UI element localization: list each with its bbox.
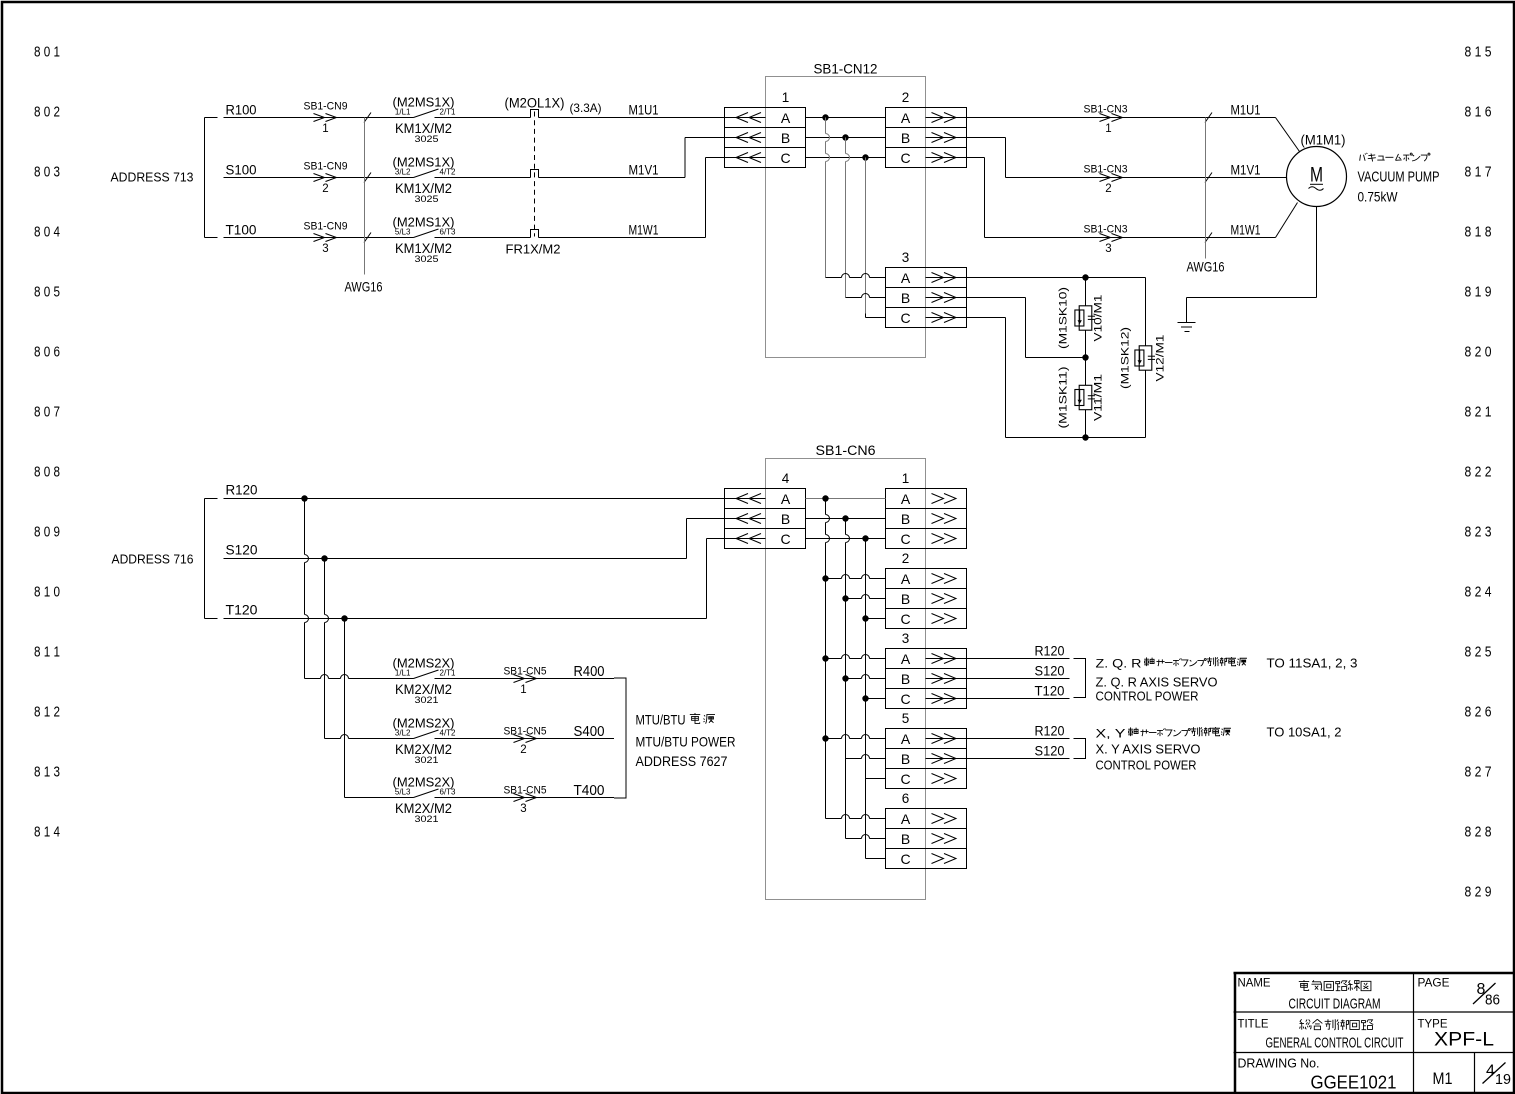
svg-text:VACUUM PUMP: VACUUM PUMP (1358, 170, 1440, 186)
svg-text:AWG16: AWG16 (1187, 259, 1225, 275)
svg-text:2/T1: 2/T1 (440, 669, 457, 678)
svg-text:R100: R100 (226, 102, 257, 118)
svg-text:B: B (901, 591, 910, 607)
svg-text:8 2 0: 8 2 0 (1465, 345, 1492, 361)
svg-text:FR1X/M2: FR1X/M2 (506, 242, 561, 257)
svg-text:3: 3 (902, 250, 910, 265)
svg-text:8 2 3: 8 2 3 (1465, 525, 1492, 541)
svg-text:C: C (900, 531, 910, 547)
svg-text:8 1 6: 8 1 6 (1465, 105, 1492, 121)
svg-text:S120: S120 (1035, 664, 1065, 679)
svg-text:X. Y AXIS SERVO: X. Y AXIS SERVO (1096, 743, 1201, 757)
svg-text:8 2 9: 8 2 9 (1465, 885, 1492, 901)
svg-text:6: 6 (902, 791, 910, 806)
svg-text:C: C (900, 611, 910, 627)
svg-text:8 0 7: 8 0 7 (34, 405, 60, 421)
svg-text:R120: R120 (1035, 644, 1065, 659)
svg-text:ADDRESS 713: ADDRESS 713 (111, 170, 194, 185)
svg-text:(3.3A): (3.3A) (570, 101, 602, 115)
svg-text:8 1 9: 8 1 9 (1465, 285, 1492, 301)
svg-text:8 2 2: 8 2 2 (1465, 465, 1492, 481)
svg-text:M1U1: M1U1 (1231, 103, 1261, 118)
svg-text:R120: R120 (1035, 724, 1065, 739)
svg-text:SB1-CN9: SB1-CN9 (304, 221, 348, 233)
svg-text:TO 11SA1, 2, 3: TO 11SA1, 2, 3 (1267, 657, 1358, 671)
svg-text:V12/M1: V12/M1 (1155, 335, 1167, 382)
svg-text:8 2 1: 8 2 1 (1465, 405, 1492, 421)
svg-text:3/L2: 3/L2 (395, 168, 411, 177)
svg-text:M1U1: M1U1 (629, 103, 659, 118)
svg-text:A: A (901, 651, 911, 667)
svg-text:C: C (900, 851, 910, 867)
svg-text:5/L3: 5/L3 (395, 788, 411, 797)
svg-text:B: B (901, 130, 910, 146)
svg-text:SB1-CN6: SB1-CN6 (816, 443, 876, 458)
svg-text:CONTROL POWER: CONTROL POWER (1096, 759, 1197, 773)
svg-text:A: A (901, 110, 911, 126)
svg-text:SB1-CN3: SB1-CN3 (1084, 104, 1128, 116)
svg-text:3: 3 (322, 243, 328, 255)
svg-text:86: 86 (1485, 993, 1500, 1009)
svg-text:5/L3: 5/L3 (395, 228, 411, 237)
svg-text:8 1 0: 8 1 0 (34, 585, 60, 601)
svg-text:A: A (781, 110, 791, 126)
svg-text:T120: T120 (1035, 684, 1065, 699)
svg-text:8 0 3: 8 0 3 (34, 165, 60, 181)
svg-text:DRAWING No.: DRAWING No. (1238, 1057, 1320, 1071)
svg-text:5: 5 (902, 711, 910, 726)
svg-text:8 0 4: 8 0 4 (34, 225, 60, 241)
svg-text:MTU/BTU POWER: MTU/BTU POWER (636, 734, 736, 750)
svg-text:C: C (780, 150, 790, 166)
svg-text:CIRCUIT DIAGRAM: CIRCUIT DIAGRAM (1289, 997, 1381, 1013)
svg-text:8 1 7: 8 1 7 (1465, 165, 1492, 181)
svg-text:GENERAL CONTROL CIRCUIT: GENERAL CONTROL CIRCUIT (1266, 1036, 1404, 1052)
svg-text:3025: 3025 (415, 194, 439, 205)
svg-text:SB1-CN9: SB1-CN9 (304, 161, 348, 173)
svg-text:8 0 2: 8 0 2 (34, 105, 60, 121)
svg-text:1: 1 (520, 684, 526, 696)
svg-text:T120: T120 (226, 602, 258, 618)
svg-text:4: 4 (782, 471, 790, 486)
svg-text:1: 1 (902, 471, 910, 486)
svg-text:2: 2 (520, 744, 526, 756)
svg-text:TYPE: TYPE (1418, 1017, 1448, 1031)
svg-text:8 1 1: 8 1 1 (34, 645, 60, 661)
svg-text:6/T3: 6/T3 (440, 228, 457, 237)
svg-text:(M1SK12): (M1SK12) (1120, 327, 1132, 389)
svg-text:8 2 5: 8 2 5 (1465, 645, 1492, 661)
svg-text:M1: M1 (1433, 1069, 1453, 1088)
svg-text:1: 1 (322, 123, 328, 135)
svg-text:3021: 3021 (415, 814, 439, 825)
svg-text:(M1M1): (M1M1) (1301, 133, 1346, 148)
svg-text:S120: S120 (226, 542, 258, 558)
svg-text:SB1-CN5: SB1-CN5 (504, 726, 547, 738)
svg-text:2: 2 (902, 90, 910, 105)
svg-text:C: C (900, 150, 910, 166)
svg-text:B: B (901, 511, 910, 527)
svg-text:A: A (781, 491, 791, 507)
svg-text:B: B (781, 130, 790, 146)
svg-text:ADDRESS 716: ADDRESS 716 (112, 552, 194, 567)
svg-text:8 1 8: 8 1 8 (1465, 225, 1492, 241)
svg-text:X, Y: X, Y (1096, 727, 1126, 741)
svg-text:M1V1: M1V1 (1231, 163, 1261, 178)
svg-text:A: A (901, 270, 911, 286)
svg-text:3021: 3021 (415, 695, 439, 706)
svg-text:3: 3 (902, 631, 910, 646)
svg-text:A: A (901, 811, 911, 827)
svg-text:S400: S400 (574, 724, 605, 740)
svg-text:A: A (901, 571, 911, 587)
svg-text:SB1-CN3: SB1-CN3 (1084, 164, 1128, 176)
svg-text:B: B (901, 751, 910, 767)
svg-text:1: 1 (782, 90, 790, 105)
svg-text:R120: R120 (226, 482, 258, 498)
svg-text:0.75kW: 0.75kW (1358, 190, 1398, 205)
svg-text:2/T1: 2/T1 (440, 108, 457, 117)
svg-text:(M1SK10): (M1SK10) (1058, 287, 1070, 349)
svg-text:(M2OL1X): (M2OL1X) (505, 96, 565, 111)
svg-text:R400: R400 (574, 664, 605, 680)
svg-text:1: 1 (1105, 123, 1111, 135)
svg-text:A: A (901, 491, 911, 507)
svg-text:SB1-CN12: SB1-CN12 (814, 61, 878, 77)
svg-text:8 0 6: 8 0 6 (34, 345, 60, 361)
svg-text:8 2 4: 8 2 4 (1465, 585, 1492, 601)
svg-text:C: C (900, 310, 910, 326)
svg-text:1/L1: 1/L1 (395, 669, 411, 678)
svg-text:Z. Q. R AXIS SERVO: Z. Q. R AXIS SERVO (1096, 676, 1218, 690)
svg-text:C: C (900, 691, 910, 707)
svg-text:A: A (901, 731, 911, 747)
svg-text:M1V1: M1V1 (629, 163, 659, 178)
svg-text:ADDRESS 7627: ADDRESS 7627 (636, 753, 728, 769)
svg-text:8 2 6: 8 2 6 (1465, 705, 1492, 721)
svg-text:TITLE: TITLE (1238, 1017, 1269, 1031)
svg-text:NAME: NAME (1238, 976, 1271, 990)
svg-text:XPF-L: XPF-L (1434, 1030, 1494, 1051)
svg-text:1/L1: 1/L1 (395, 108, 411, 117)
svg-text:V11/M1: V11/M1 (1093, 374, 1105, 421)
svg-text:C: C (900, 771, 910, 787)
svg-text:3: 3 (1105, 243, 1111, 255)
svg-text:(M1SK11): (M1SK11) (1058, 367, 1070, 429)
svg-text:T400: T400 (574, 783, 605, 799)
svg-text:3/L2: 3/L2 (395, 729, 411, 738)
svg-text:SB1-CN3: SB1-CN3 (1084, 224, 1128, 236)
svg-text:8 0 1: 8 0 1 (34, 45, 60, 61)
svg-text:M1W1: M1W1 (629, 223, 659, 238)
svg-text:B: B (901, 290, 910, 306)
svg-text:TO 10SA1, 2: TO 10SA1, 2 (1267, 726, 1342, 740)
svg-text:MTU/BTU: MTU/BTU (636, 712, 686, 728)
svg-text:T100: T100 (226, 222, 257, 238)
svg-text:V10/M1: V10/M1 (1093, 295, 1105, 342)
svg-text:B: B (901, 671, 910, 687)
svg-text:CONTROL POWER: CONTROL POWER (1096, 690, 1199, 704)
svg-text:SB1-CN5: SB1-CN5 (504, 785, 547, 797)
svg-text:8 0 5: 8 0 5 (34, 285, 60, 301)
svg-text:8 0 8: 8 0 8 (34, 465, 60, 481)
svg-text:C: C (780, 531, 790, 547)
svg-text:8 1 5: 8 1 5 (1465, 45, 1492, 61)
svg-text:6/T3: 6/T3 (440, 788, 457, 797)
svg-text:SB1-CN9: SB1-CN9 (304, 101, 348, 113)
svg-text:AWG16: AWG16 (345, 279, 383, 295)
svg-text:8 2 8: 8 2 8 (1465, 825, 1492, 841)
svg-text:2: 2 (322, 183, 328, 195)
svg-text:3: 3 (520, 803, 526, 815)
svg-text:M: M (1310, 164, 1323, 187)
svg-text:B: B (781, 511, 790, 527)
svg-text:19: 19 (1495, 1072, 1511, 1088)
svg-text:4/T2: 4/T2 (440, 729, 457, 738)
svg-text:2: 2 (902, 551, 910, 566)
svg-text:8 0 9: 8 0 9 (34, 525, 60, 541)
svg-text:S120: S120 (1035, 744, 1065, 759)
svg-text:8 1 4: 8 1 4 (34, 825, 60, 841)
svg-text:B: B (901, 831, 910, 847)
svg-text:GGEE1021: GGEE1021 (1311, 1072, 1397, 1093)
svg-text:8 2 7: 8 2 7 (1465, 765, 1492, 781)
svg-text:Z. Q. R: Z. Q. R (1096, 657, 1142, 671)
svg-text:S100: S100 (226, 162, 257, 178)
svg-text:2: 2 (1105, 183, 1111, 195)
svg-text:8 1 2: 8 1 2 (34, 705, 60, 721)
svg-text:M1W1: M1W1 (1231, 223, 1261, 238)
svg-text:4/T2: 4/T2 (440, 168, 457, 177)
svg-text:SB1-CN5: SB1-CN5 (504, 666, 547, 678)
svg-text:8 1 3: 8 1 3 (34, 765, 60, 781)
svg-text:PAGE: PAGE (1418, 976, 1450, 990)
svg-text:3021: 3021 (415, 755, 439, 766)
svg-text:3025: 3025 (415, 254, 439, 265)
svg-text:3025: 3025 (415, 134, 439, 145)
